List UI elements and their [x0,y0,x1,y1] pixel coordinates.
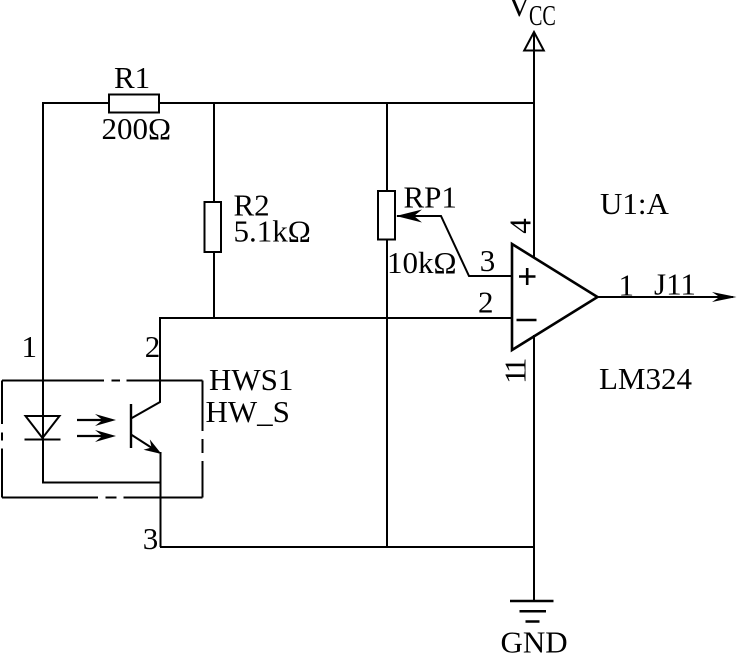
svg-text:HW_S: HW_S [206,394,290,429]
svg-text:GND: GND [501,625,568,655]
svg-text:5.1kΩ: 5.1kΩ [234,213,311,248]
svg-text:200Ω: 200Ω [102,111,172,146]
svg-text:CC: CC [529,1,556,32]
svg-text:10kΩ: 10kΩ [387,245,457,280]
svg-text:J11: J11 [654,267,696,302]
svg-text:11: 11 [498,359,533,384]
svg-text:R1: R1 [114,60,150,95]
svg-text:3: 3 [143,521,159,556]
svg-text:RP1: RP1 [404,180,457,215]
svg-text:2: 2 [145,329,161,364]
svg-text:4: 4 [503,218,538,234]
svg-text:2: 2 [478,285,494,320]
svg-text:LM324: LM324 [599,361,693,396]
svg-text:3: 3 [480,243,496,278]
svg-text:1: 1 [619,268,635,303]
svg-text:HWS1: HWS1 [209,362,293,397]
svg-text:U1:A: U1:A [600,186,670,221]
svg-text:V: V [508,0,531,23]
svg-text:1: 1 [22,329,38,364]
